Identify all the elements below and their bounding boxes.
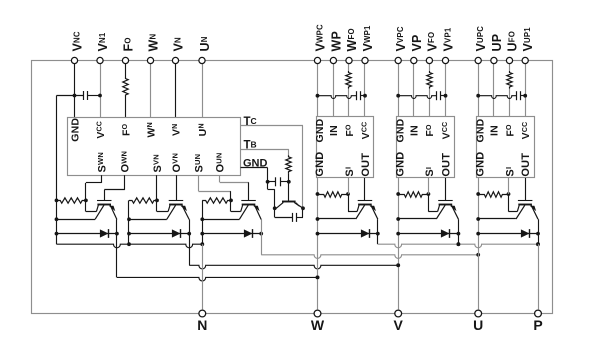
svg-text:IN: IN bbox=[409, 125, 421, 136]
svg-text:UP: UP bbox=[490, 34, 504, 52]
svg-text:GND: GND bbox=[243, 157, 268, 169]
svg-text:GND: GND bbox=[314, 118, 326, 142]
svg-text:V: V bbox=[394, 317, 404, 333]
svg-text:GND: GND bbox=[475, 118, 487, 142]
svg-text:GND: GND bbox=[395, 118, 407, 142]
svg-text:OUT: OUT bbox=[440, 153, 452, 177]
svg-text:GND: GND bbox=[475, 152, 487, 177]
svg-text:IN: IN bbox=[328, 125, 340, 136]
svg-text:U: U bbox=[473, 317, 483, 333]
svg-text:OUT: OUT bbox=[360, 153, 372, 177]
svg-text:OUT: OUT bbox=[520, 153, 532, 177]
svg-text:IN: IN bbox=[489, 125, 501, 136]
svg-text:N: N bbox=[197, 317, 207, 333]
svg-text:P: P bbox=[533, 317, 542, 333]
svg-text:GND: GND bbox=[314, 152, 326, 177]
svg-text:WP: WP bbox=[329, 31, 343, 52]
svg-text:GND: GND bbox=[69, 118, 81, 142]
svg-text:VP: VP bbox=[410, 34, 424, 51]
svg-text:GND: GND bbox=[395, 152, 407, 177]
svg-text:W: W bbox=[311, 317, 325, 333]
